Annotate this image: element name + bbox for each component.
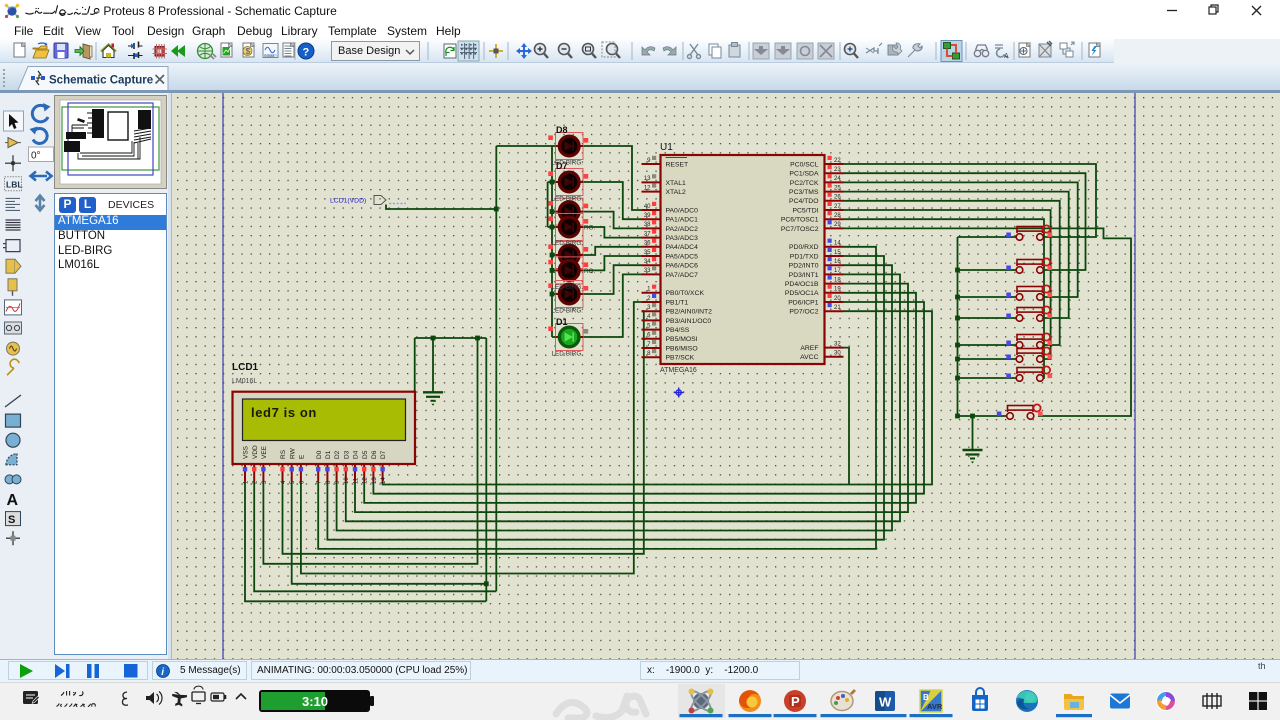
svg-text:D1: D1 (325, 450, 332, 459)
svg-text:Schematic Capture: Schematic Capture (49, 75, 153, 87)
svg-text:PC6/TOSC1: PC6/TOSC1 (781, 217, 819, 224)
svg-text:RG.: RG. (584, 268, 595, 275)
svg-text:24: 24 (834, 176, 841, 182)
svg-text:11: 11 (353, 477, 359, 484)
svg-text:PB5/MOSI: PB5/MOSI (666, 336, 698, 343)
svg-text:PB6/MISO: PB6/MISO (666, 345, 698, 352)
svg-text:20: 20 (834, 296, 841, 302)
svg-text:LED-BIRG.: LED-BIRG. (552, 196, 584, 203)
svg-text:XTAL2: XTAL2 (666, 189, 686, 196)
svg-text:35: 35 (644, 250, 651, 256)
svg-text:D3: D3 (343, 450, 350, 459)
svg-text:25: 25 (834, 185, 841, 191)
svg-text:S: S (8, 514, 15, 526)
svg-text:PA7/ADC7: PA7/ADC7 (666, 272, 699, 279)
svg-text:15: 15 (834, 250, 841, 256)
svg-text:LED-BIRG.: LED-BIRG. (552, 351, 584, 358)
svg-text:PD0/RXD: PD0/RXD (789, 244, 819, 251)
svg-text:VSS: VSS (243, 445, 250, 459)
svg-text:22: 22 (834, 158, 841, 164)
svg-text:D6: D6 (371, 450, 378, 459)
svg-text:PA0/ADC0: PA0/ADC0 (666, 207, 699, 214)
svg-text:PB4/SS: PB4/SS (666, 327, 690, 334)
svg-text:23: 23 (834, 167, 841, 173)
svg-text:PD4/OC1B: PD4/OC1B (785, 281, 819, 288)
svg-text:PA2/ADC2: PA2/ADC2 (666, 226, 699, 233)
svg-text:PA1/ADC1: PA1/ADC1 (666, 217, 699, 224)
svg-text:AVCC: AVCC (800, 354, 818, 361)
svg-text:PC1/SDA: PC1/SDA (789, 171, 819, 178)
svg-text:PB3/AIN1/OC0: PB3/AIN1/OC0 (666, 318, 712, 325)
svg-text:$: $ (246, 46, 251, 56)
svg-text:P: P (791, 694, 800, 709)
svg-text:26: 26 (834, 195, 841, 201)
svg-text:37: 37 (644, 231, 651, 237)
svg-text:RESET: RESET (666, 161, 689, 168)
svg-text:PC3/TMS: PC3/TMS (789, 189, 819, 196)
svg-text:PC7/TOSC2: PC7/TOSC2 (781, 226, 819, 233)
svg-text:13: 13 (644, 176, 651, 182)
svg-text:12: 12 (644, 185, 651, 191)
svg-text:LCD1: LCD1 (232, 362, 259, 373)
svg-text:38: 38 (644, 222, 651, 228)
svg-text:VDD: VDD (252, 445, 259, 459)
svg-text:12: 12 (363, 477, 369, 484)
svg-text:0.5444: 0.5444 (265, 54, 275, 58)
svg-text:D8: D8 (556, 125, 568, 135)
svg-text:36: 36 (644, 241, 651, 247)
svg-text:3:10: 3:10 (302, 694, 328, 709)
svg-text:19: 19 (834, 287, 841, 293)
svg-text:14: 14 (381, 477, 387, 484)
svg-text:PB0/T0/XCK: PB0/T0/XCK (666, 290, 705, 297)
svg-text:RS: RS (280, 449, 287, 459)
svg-text:PB7/SCK: PB7/SCK (666, 355, 695, 362)
svg-text:39: 39 (644, 213, 651, 219)
svg-text:30: 30 (834, 351, 841, 357)
svg-text:0°: 0° (31, 151, 41, 162)
svg-text:led7 is on: led7 is on (251, 405, 317, 420)
svg-text:29: 29 (834, 222, 841, 228)
svg-text:33: 33 (644, 268, 651, 274)
svg-text:PD7/OC2: PD7/OC2 (789, 309, 818, 316)
svg-text:RG.: RG. (584, 225, 595, 232)
svg-text:D1: D1 (556, 317, 568, 327)
svg-text:PD2/INT0: PD2/INT0 (789, 263, 819, 270)
svg-text:21: 21 (834, 305, 841, 311)
svg-text:34: 34 (644, 259, 651, 265)
svg-text:LM016L: LM016L (232, 378, 257, 385)
svg-text:PC5/TDI: PC5/TDI (792, 207, 818, 214)
svg-text:W: W (879, 695, 892, 710)
svg-text:27: 27 (834, 204, 841, 210)
svg-text:VEE: VEE (261, 445, 268, 459)
svg-text:PA3/ADC3: PA3/ADC3 (666, 235, 699, 242)
svg-text:A: A (1004, 53, 1009, 60)
svg-text:PB1/T1: PB1/T1 (666, 299, 689, 306)
svg-text:PC4/TDO: PC4/TDO (789, 198, 818, 205)
svg-text:U1: U1 (660, 142, 673, 153)
svg-text:E: E (299, 454, 306, 459)
svg-text:D5: D5 (362, 450, 369, 459)
svg-text:PC0/SCL: PC0/SCL (790, 161, 819, 168)
svg-text:D0: D0 (316, 450, 323, 459)
svg-text:32: 32 (834, 341, 841, 347)
svg-text:A: A (7, 492, 19, 509)
svg-text:LED-BIRG.: LED-BIRG. (552, 160, 584, 167)
svg-text:17: 17 (834, 268, 841, 274)
svg-text:AREF: AREF (800, 345, 818, 352)
svg-text:PA5/ADC5: PA5/ADC5 (666, 253, 699, 260)
svg-text:PA6/ADC6: PA6/ADC6 (666, 263, 699, 270)
svg-text:LED-BIRG.: LED-BIRG. (552, 240, 584, 247)
svg-text:18: 18 (834, 277, 841, 283)
svg-text:PD3/INT1: PD3/INT1 (789, 272, 819, 279)
svg-text:LCD1(VDD): LCD1(VDD) (330, 198, 366, 205)
svg-text:PD6/ICP1: PD6/ICP1 (788, 299, 818, 306)
svg-text:10: 10 (344, 477, 350, 484)
svg-text:PD1/TXD: PD1/TXD (790, 253, 819, 260)
svg-text:D4: D4 (353, 450, 360, 459)
svg-text:28: 28 (834, 213, 841, 219)
svg-text:?: ? (303, 47, 310, 59)
svg-text:13: 13 (372, 477, 378, 484)
svg-text:RW: RW (289, 447, 296, 459)
svg-text:i: i (161, 667, 164, 678)
svg-text:B: B (923, 693, 929, 702)
svg-text:AVR: AVR (927, 702, 943, 711)
svg-text:D2: D2 (334, 450, 341, 459)
svg-text:XTAL1: XTAL1 (666, 180, 686, 187)
svg-text:LED-BIRG.: LED-BIRG. (552, 284, 584, 291)
svg-text:LED-BIRG.: LED-BIRG. (552, 308, 584, 315)
svg-text:PB2/AIN0/INT2: PB2/AIN0/INT2 (666, 309, 713, 316)
svg-text:ATMEGA16: ATMEGA16 (660, 367, 697, 374)
svg-text:16: 16 (834, 259, 841, 265)
svg-text:PD5/OC1A: PD5/OC1A (785, 290, 819, 297)
svg-text:PC2/TCK: PC2/TCK (790, 180, 819, 187)
svg-text:14: 14 (834, 241, 841, 247)
svg-text:PA4/ADC4: PA4/ADC4 (666, 244, 699, 251)
svg-text:D7: D7 (380, 450, 387, 459)
svg-text:40: 40 (644, 204, 651, 210)
